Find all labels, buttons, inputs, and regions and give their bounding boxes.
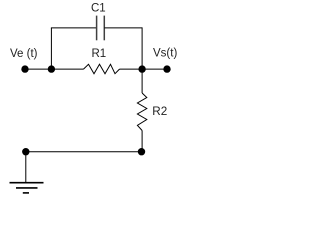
wire node A to R1 <box>51 68 83 70</box>
resistor R2 <box>137 93 146 131</box>
wire ground stub <box>25 152 27 183</box>
svg-text:R2: R2 <box>152 105 167 118</box>
node Vs terminal dot <box>163 65 170 72</box>
svg-text:Ve (t): Ve (t) <box>10 48 38 60</box>
bottom left ground junction dot <box>22 148 29 155</box>
R1 label <box>92 48 107 60</box>
C1 label <box>91 3 106 15</box>
node A junction dot <box>48 65 55 72</box>
wire R1 to node B <box>120 68 143 70</box>
node Vs label <box>153 47 177 59</box>
wire top rail left to C1 <box>51 27 97 29</box>
ground <box>10 183 44 193</box>
wire node A up to top rail <box>50 28 52 69</box>
wire top rail C1 to right corner <box>104 27 142 29</box>
svg-text:Vs(t): Vs(t) <box>153 47 177 59</box>
wire node B down to R2 <box>141 69 143 93</box>
node Ve terminal dot <box>21 65 28 72</box>
R2 label <box>152 105 167 118</box>
wire bottom rail <box>26 151 142 153</box>
bottom right junction dot <box>138 148 145 155</box>
node Ve label <box>10 48 38 60</box>
wire input Ve to node A <box>25 68 51 70</box>
wire right corner down to node B <box>141 27 143 69</box>
capacitor C1 <box>97 16 105 41</box>
svg-text:C1: C1 <box>91 3 106 15</box>
wire node B to Vs terminal <box>142 68 167 70</box>
svg-text:R1: R1 <box>92 48 107 60</box>
node B junction dot <box>138 65 145 72</box>
resistor R1 <box>84 64 120 73</box>
wire R2 to bottom node <box>141 131 143 152</box>
